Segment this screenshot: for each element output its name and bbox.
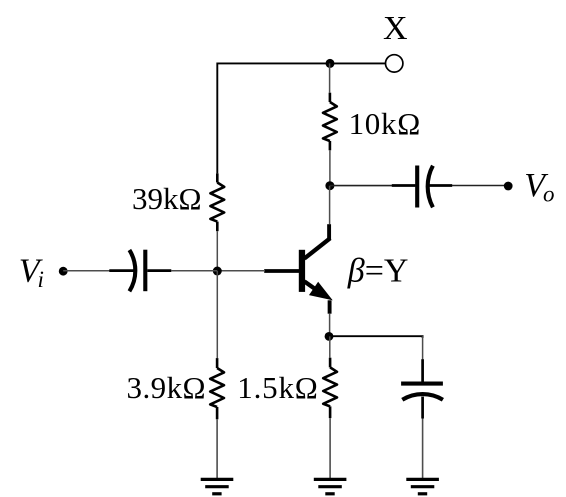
collector diagonal bbox=[304, 238, 330, 258]
svg-text:i: i bbox=[38, 267, 44, 292]
wire output rail right segment bbox=[452, 185, 508, 187]
ground symbol under 3.9k bbox=[201, 479, 234, 493]
resistor 39kOhm bbox=[210, 173, 224, 231]
wire bypass branch vertical lead bbox=[422, 336, 424, 359]
wire 39k bottom to input node bbox=[216, 231, 218, 271]
wire 1.5k to ground bbox=[329, 418, 331, 478]
wire emitter node down to 1.5k bbox=[329, 336, 331, 357]
transistor Q1 NPN bbox=[264, 224, 330, 314]
capacitor input coupling bbox=[109, 250, 171, 292]
svg-text:β=Y: β=Y bbox=[347, 253, 409, 290]
resistor 3.9kOhm bbox=[210, 358, 224, 419]
terminal dot Vi bbox=[59, 267, 68, 276]
wire 10k to collector node bbox=[329, 150, 331, 185]
resistor 1.5kOhm bbox=[323, 358, 337, 418]
wire top rail and left rail down to 39k bbox=[217, 63, 385, 173]
wire node X down to 10k bbox=[329, 63, 331, 92]
base bar bbox=[299, 250, 305, 292]
terminal dot Vo bbox=[504, 182, 513, 191]
svg-text:39kΩ: 39kΩ bbox=[132, 181, 202, 216]
svg-text:10kΩ: 10kΩ bbox=[349, 106, 421, 141]
wire emitter rail to bypass branch bbox=[329, 336, 423, 338]
wire emitter stub to emitter node bbox=[329, 314, 331, 337]
terminal X open circle bbox=[386, 55, 403, 72]
node junction dot above 10k bbox=[326, 59, 335, 68]
node junction dot emitter bbox=[325, 332, 334, 341]
wire Vi to input cap bbox=[63, 270, 110, 272]
emitter diagonal bbox=[304, 281, 324, 295]
wire base thin segment bbox=[217, 270, 265, 272]
svg-text:3.9kΩ: 3.9kΩ bbox=[127, 370, 207, 405]
collector stub bbox=[327, 224, 331, 239]
emitter arrowhead bbox=[311, 284, 330, 299]
capacitor output coupling bbox=[392, 166, 452, 208]
wire collector node to transistor bbox=[329, 186, 331, 225]
wire input node down to 3.9k bbox=[216, 271, 218, 358]
node junction dot input/base bbox=[213, 267, 222, 276]
wire bypass cap to ground bbox=[422, 419, 424, 479]
capacitor emitter bypass bbox=[401, 359, 443, 418]
base lead bbox=[264, 269, 300, 273]
node junction dot collector/output bbox=[325, 181, 334, 190]
ground symbol under 1.5k bbox=[314, 479, 347, 493]
svg-text:1.5kΩ: 1.5kΩ bbox=[237, 370, 318, 405]
wire output rail left segment bbox=[330, 185, 393, 187]
svg-text:X: X bbox=[383, 10, 408, 47]
wire 3.9k to ground bbox=[216, 419, 218, 478]
wire input cap to node bbox=[171, 270, 217, 272]
ground symbol under bypass cap bbox=[406, 479, 439, 493]
emitter stub bbox=[328, 300, 332, 313]
svg-text:o: o bbox=[543, 182, 555, 207]
resistor 10kOhm bbox=[323, 93, 337, 151]
